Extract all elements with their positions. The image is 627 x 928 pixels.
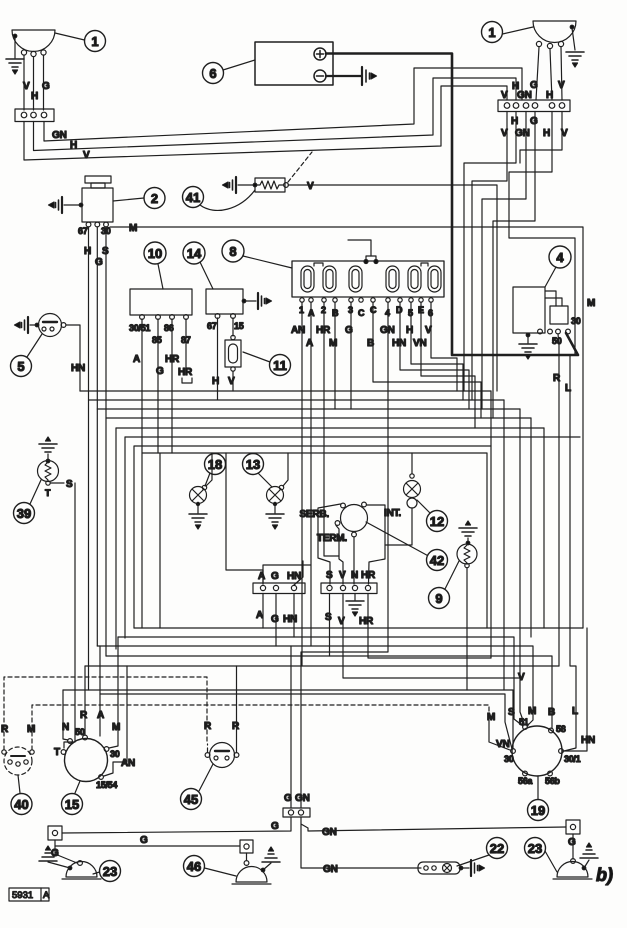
- svg-text:15/54: 15/54: [96, 780, 117, 790]
- svg-text:15: 15: [234, 321, 244, 331]
- svg-text:30: 30: [101, 226, 111, 236]
- bottom bus y=690 (VN): [63, 690, 513, 749]
- svg-text:14: 14: [187, 246, 202, 261]
- svg-text:V: V: [228, 376, 235, 387]
- svg-text:R: R: [204, 721, 212, 732]
- svg-text:G: G: [95, 257, 103, 268]
- svg-text:30: 30: [504, 754, 514, 764]
- svg-text:HR: HR: [165, 354, 180, 365]
- svg-text:H: H: [406, 325, 413, 336]
- ignition lock 40 (dashed): [4, 747, 32, 775]
- fuse box 8 terminals: [299, 298, 433, 318]
- bottom bus y=666 (R): [85, 665, 559, 667]
- svg-text:85: 85: [152, 335, 162, 345]
- svg-text:5931: 5931: [12, 890, 33, 901]
- wire G (fuse down to bottom block): [291, 302, 351, 808]
- bus y=391 (HN): [80, 390, 491, 392]
- ground (switch 2): [49, 197, 82, 213]
- svg-text:56a: 56a: [518, 776, 533, 786]
- ignition switch 4: [513, 287, 581, 346]
- svg-text:TERM.: TERM.: [317, 533, 348, 544]
- svg-text:R: R: [80, 710, 88, 721]
- battery 6: [255, 42, 333, 85]
- svg-text:HR: HR: [361, 570, 376, 581]
- square connector (right lamp 23): [566, 820, 580, 848]
- svg-text:A: A: [43, 890, 50, 901]
- ground (lamp 18): [189, 505, 207, 529]
- callout 13: [243, 454, 273, 488]
- svg-text:GN: GN: [295, 793, 310, 804]
- svg-text:S: S: [66, 479, 73, 490]
- right loom vertical x=531: [530, 418, 532, 637]
- ground (flasher 5): [15, 317, 38, 333]
- horn 45: [204, 721, 240, 768]
- svg-text:GN: GN: [380, 325, 395, 336]
- svg-text:11: 11: [273, 358, 287, 373]
- svg-text:67: 67: [207, 321, 217, 331]
- callout 18: [205, 454, 226, 487]
- wires from relay 10: [133, 319, 193, 628]
- fuse box output wires and labels: [291, 325, 432, 349]
- svg-text:A: A: [306, 338, 313, 349]
- wire S (sender 39 down to motor T): [50, 479, 75, 748]
- svg-text:5: 5: [17, 359, 24, 374]
- callout 11: [243, 352, 291, 376]
- wire HN (fuse to bus): [400, 302, 469, 409]
- svg-text:R: R: [553, 373, 561, 384]
- wire S (gauge SERB to block): [318, 504, 341, 584]
- wires G H V from right headlamp: [501, 47, 565, 101]
- fuse 11: [225, 318, 241, 391]
- flasher unit 5: [35, 314, 66, 337]
- callout 1 (right): [482, 22, 534, 43]
- wire GN (fuse down to bottom block): [301, 302, 388, 808]
- starter/dynamo 15: [54, 710, 135, 790]
- temperature sender 9: [457, 521, 477, 568]
- lamp 22 (number plate light): [418, 862, 463, 874]
- switch 2 (stop light switch): [78, 176, 113, 236]
- resistor 41: [253, 178, 288, 192]
- svg-text:GN: GN: [515, 128, 530, 139]
- svg-text:H: H: [70, 140, 77, 151]
- svg-text:N: N: [351, 570, 358, 581]
- lamp 12 (instrument light): [404, 474, 421, 508]
- callout 23 (right): [525, 838, 558, 873]
- wire HR (gauge INT to block): [367, 505, 386, 584]
- bus y=437 (M loop): [125, 436, 580, 438]
- wires into switch 19: [520, 409, 587, 751]
- wire L (ignition down): [564, 355, 576, 751]
- svg-text:H: H: [546, 90, 553, 101]
- lamp 46: [232, 861, 271, 884]
- wire V (gauge TERM to block): [336, 526, 343, 585]
- ground (headlamp 1 right): [566, 28, 584, 67]
- callout 23 (left): [93, 861, 121, 882]
- bus y=694: [100, 694, 512, 749]
- svg-text:22: 22: [490, 841, 504, 856]
- svg-text:8: 8: [229, 244, 236, 259]
- bus y=400 (H): [89, 391, 505, 400]
- svg-text:30: 30: [571, 316, 581, 326]
- svg-text:GN: GN: [517, 90, 532, 101]
- bus y=418 (B): [106, 417, 531, 419]
- ground (flasher 14): [245, 293, 272, 309]
- svg-text:56b: 56b: [545, 776, 560, 786]
- svg-text:15: 15: [65, 797, 79, 812]
- bottom bus y=646 (G/M): [97, 646, 533, 726]
- svg-text:HN: HN: [581, 735, 595, 746]
- callout 22: [457, 838, 508, 867]
- svg-text:AN: AN: [121, 758, 135, 769]
- lamp 23 (left): [62, 861, 101, 879]
- inner rectangle (instrument panel loop): [142, 453, 487, 628]
- svg-text:INT.: INT.: [384, 508, 401, 519]
- wires below blocks: [263, 594, 520, 679]
- svg-text:G: G: [271, 614, 279, 625]
- svg-text:T: T: [54, 747, 60, 758]
- svg-text:B: B: [548, 707, 555, 718]
- right loom vertical x=504 lower: [503, 400, 505, 690]
- relay 10: [129, 289, 192, 345]
- svg-text:G: G: [42, 81, 50, 92]
- ground (lamp 23 right): [580, 843, 598, 868]
- svg-text:GN: GN: [322, 827, 337, 838]
- svg-text:M: M: [487, 712, 495, 723]
- svg-text:S: S: [508, 707, 515, 718]
- svg-text:V: V: [338, 616, 345, 627]
- svg-text:HR: HR: [359, 616, 374, 627]
- svg-text:H: H: [84, 246, 91, 257]
- callout 1 (left): [55, 31, 106, 52]
- wire M (dashed tail into switch 19): [489, 720, 510, 750]
- svg-text:GN: GN: [52, 130, 67, 141]
- wire H (left headlamp to right connector): [34, 78, 517, 151]
- callout 42: [366, 522, 448, 571]
- wire VN (fuse to bus): [421, 302, 475, 428]
- bottom bus y=656 (B): [106, 656, 552, 728]
- wire R (horn 45 right to bus): [236, 666, 238, 752]
- svg-text:H: H: [31, 91, 38, 102]
- dashed wires from 40: [4, 677, 489, 750]
- bus y=428 (VN): [116, 427, 544, 429]
- svg-text:1: 1: [91, 34, 98, 49]
- svg-text:AN: AN: [291, 325, 305, 336]
- label 5931A: [9, 888, 50, 901]
- ground (battery minus): [326, 67, 377, 85]
- connector block (S V N HR): [321, 570, 377, 627]
- svg-text:S: S: [102, 246, 109, 257]
- wire B (fuse to bus): [373, 302, 481, 418]
- wire H (fuse to bus): [411, 302, 463, 400]
- wires above blocks (to lamps and loom): [226, 453, 303, 585]
- svg-text:41: 41: [186, 190, 200, 205]
- ground (ignition switch 4): [519, 335, 537, 359]
- ground (lamp 46): [262, 847, 280, 870]
- connector block (left, 3-way): [15, 109, 54, 122]
- wire HN (flasher 5 to bus): [66, 325, 85, 391]
- flasher 14: [206, 289, 246, 331]
- wire HR (fuse to block 2): [324, 302, 339, 556]
- warning lamp 13: [267, 485, 284, 505]
- wire GN (block to right square + lamp 22): [62, 817, 566, 875]
- svg-text:T: T: [45, 488, 51, 498]
- svg-text:H: H: [543, 128, 550, 139]
- left loom vertical x=134: [134, 446, 491, 628]
- wire from sender 9: [466, 568, 468, 690]
- callout 41: [183, 187, 256, 211]
- svg-text:30/51: 30/51: [129, 323, 150, 333]
- svg-text:A: A: [258, 571, 265, 582]
- callout 40: [11, 775, 32, 815]
- svg-text:50: 50: [75, 727, 85, 737]
- svg-text:42: 42: [430, 553, 444, 568]
- svg-text:H: H: [511, 116, 518, 127]
- svg-text:M: M: [528, 706, 536, 717]
- wire AN (fuse to motor 15): [104, 302, 302, 776]
- svg-text:H: H: [212, 376, 219, 387]
- svg-text:23: 23: [103, 864, 117, 879]
- wire H (switch 2 terminal 67 down left loom): [88, 227, 90, 690]
- callout 2: [113, 188, 165, 209]
- svg-text:HR: HR: [178, 367, 193, 378]
- svg-text:39: 39: [17, 506, 31, 521]
- warning lamp 18: [190, 485, 207, 505]
- callout 9: [429, 561, 460, 609]
- svg-text:18: 18: [208, 457, 222, 472]
- wire V H G from left headlamp: [23, 55, 50, 110]
- svg-text:A: A: [133, 354, 140, 365]
- svg-text:G: G: [271, 821, 279, 832]
- wire battery plus (thick) to ignition switch: [326, 54, 578, 356]
- left loom vertical x=116: [115, 428, 117, 649]
- svg-text:M: M: [587, 298, 595, 309]
- svg-text:67: 67: [78, 226, 88, 236]
- callout 39: [14, 480, 42, 524]
- ground (lamp 23 left): [39, 846, 70, 868]
- svg-text:6: 6: [209, 66, 216, 81]
- svg-text:13: 13: [246, 457, 260, 472]
- svg-text:C: C: [358, 308, 365, 318]
- wires below right connector (staircase into loom): [464, 112, 575, 419]
- svg-text:G: G: [140, 835, 148, 846]
- svg-text:M: M: [27, 724, 35, 735]
- svg-text:SERB.: SERB.: [299, 509, 329, 520]
- right loom vertical x=544: [543, 428, 545, 628]
- svg-text:G: G: [284, 793, 292, 804]
- wire M (fuse to bus): [334, 302, 336, 409]
- callout 19: [528, 776, 549, 821]
- wire V (fuse to bus): [431, 302, 457, 391]
- svg-text:HN: HN: [283, 614, 297, 625]
- svg-text:58: 58: [556, 724, 566, 734]
- light switch 19: [487, 672, 595, 786]
- svg-text:45: 45: [184, 792, 198, 807]
- bottom bus y=628 (M): [134, 627, 583, 629]
- ground (resistor 41): [223, 177, 254, 193]
- svg-text:S: S: [325, 612, 332, 623]
- svg-text:G: G: [530, 116, 538, 127]
- svg-text:50: 50: [552, 336, 562, 346]
- bottom bus y=637 (S): [118, 637, 523, 726]
- svg-text:R: R: [1, 724, 9, 735]
- svg-text:9: 9: [435, 591, 442, 606]
- fuel sender 39: [38, 437, 59, 498]
- svg-text:A: A: [256, 610, 263, 621]
- svg-text:G: G: [345, 325, 353, 336]
- fuse box 8: [292, 240, 444, 297]
- wire G (left run): [55, 835, 240, 846]
- svg-text:19: 19: [531, 803, 545, 818]
- callout 12: [417, 500, 448, 532]
- wire R (ignition 50 down): [553, 334, 561, 666]
- ground (headlamp 1 left): [6, 38, 24, 74]
- svg-text:46: 46: [187, 859, 201, 874]
- connector block (A G HN): [253, 571, 305, 625]
- lamp 23 (right): [553, 848, 592, 879]
- svg-text:M: M: [329, 338, 337, 349]
- wire H (flasher 14 to bus): [212, 318, 219, 391]
- callout 46: [184, 856, 237, 877]
- svg-text:V: V: [518, 672, 525, 683]
- svg-text:V: V: [307, 181, 314, 192]
- svg-text:G: G: [568, 837, 576, 848]
- svg-text:M: M: [112, 722, 120, 733]
- svg-text:G: G: [271, 571, 279, 582]
- svg-text:L: L: [565, 383, 571, 394]
- left loom vertical x=125: [124, 437, 126, 638]
- wire V (from resistor 41): [288, 152, 497, 391]
- connector block (right, 6-way): [498, 100, 570, 139]
- connector block G GN (bottom): [283, 793, 310, 817]
- callout 4: [545, 246, 571, 287]
- bus y=409 (HN fuse): [97, 408, 520, 410]
- callout 6: [203, 60, 256, 84]
- svg-text:b): b): [596, 865, 613, 885]
- wire G (switch 2 middle down left loom): [96, 227, 98, 646]
- wires lamps 18 13 to loom: [206, 453, 288, 486]
- svg-text:23: 23: [528, 841, 542, 856]
- wire V (left headlamp to right connector): [24, 86, 507, 161]
- callout 15: [62, 781, 83, 815]
- svg-text:HN: HN: [71, 363, 85, 374]
- wire A (fuse to block A and motor): [263, 302, 311, 646]
- svg-text:S: S: [326, 570, 333, 581]
- svg-text:L: L: [572, 706, 578, 717]
- svg-text:12: 12: [430, 514, 444, 529]
- square connector (lamp 46): [240, 840, 253, 860]
- svg-text:GN: GN: [323, 864, 338, 875]
- svg-text:V: V: [83, 150, 90, 161]
- ground (lamp 22): [461, 860, 485, 876]
- svg-text:2: 2: [151, 191, 158, 206]
- svg-text:V: V: [558, 80, 565, 91]
- callout 10: [144, 242, 166, 289]
- wire M (switch 2 to right loom): [110, 223, 583, 628]
- right loom vertical x=491: [490, 391, 492, 658]
- headlamp 1 (right): [533, 21, 576, 49]
- svg-text:HN: HN: [392, 338, 406, 349]
- svg-text:10: 10: [148, 246, 162, 261]
- ground (lamp 13): [266, 505, 284, 529]
- svg-text:V: V: [339, 570, 346, 581]
- wires into 15: [63, 637, 118, 748]
- headlamp 1 (left): [12, 30, 55, 57]
- wires lamp 12: [385, 453, 412, 545]
- ground (block 2 N): [346, 594, 364, 617]
- svg-text:V: V: [23, 81, 30, 92]
- svg-text:1: 1: [488, 25, 495, 40]
- callout 45: [181, 764, 214, 810]
- callout 5: [11, 334, 43, 377]
- wire GN (left headlamp to right connector): [44, 68, 522, 141]
- svg-text:G: G: [156, 366, 164, 377]
- fuel gauge 42: [299, 502, 401, 544]
- callout 8: [222, 240, 292, 268]
- wire S (switch 2 terminal 30 down left loom): [105, 227, 107, 656]
- square connector (left lamp 23): [48, 826, 77, 863]
- svg-text:4: 4: [556, 250, 564, 265]
- callout 14: [183, 242, 213, 289]
- svg-text:40: 40: [14, 797, 28, 812]
- svg-text:VN: VN: [413, 338, 427, 349]
- svg-text:M: M: [129, 223, 137, 234]
- wire N (gauge to block): [353, 537, 355, 584]
- svg-text:30/1: 30/1: [564, 754, 581, 764]
- svg-text:30: 30: [110, 749, 120, 759]
- svg-text:VN: VN: [496, 739, 510, 750]
- svg-text:V: V: [501, 90, 508, 101]
